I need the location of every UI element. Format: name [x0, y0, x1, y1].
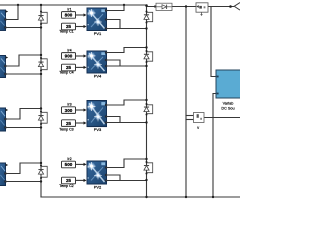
node junction before goto tag	[229, 5, 232, 8]
wire PV2 minus to right bus	[107, 65, 147, 67]
bypass diode D3R	[144, 105, 153, 114]
constant irradiance row 4 value 500	[62, 161, 76, 168]
wire irradiance row 3 to PV3	[76, 109, 84, 111]
constant temperature row 4 value 25	[62, 177, 76, 184]
node D3R cathode	[146, 114, 148, 116]
wire PV1 minus to right bus	[107, 28, 147, 30]
constant irradiance row 3 value 300	[62, 107, 76, 114]
svg-text:PV3: PV3	[94, 127, 102, 132]
svg-text:Ir2: Ir2	[67, 157, 71, 161]
PV module block left string row 4 (cropped)	[0, 163, 6, 186]
wire blocking diode to current sensor	[172, 6, 196, 8]
bypass diode D4L	[38, 166, 47, 177]
wire irradiance row 1 to PV1	[76, 14, 84, 16]
node junction left bus top on top rail	[40, 4, 42, 6]
svg-text:Temp C3: Temp C3	[59, 127, 73, 131]
svg-text:500: 500	[65, 162, 73, 167]
wire PV1 measurement port down to minus wire	[107, 20, 121, 29]
wire left block row 3 minus to left bus	[6, 127, 41, 129]
svg-text:800: 800	[65, 13, 73, 18]
svg-text:25: 25	[66, 178, 72, 183]
wire PV4 plus to right bus	[107, 159, 147, 168]
node right bus minus tap row 3	[145, 121, 147, 123]
node right bus minus tap row 4	[145, 179, 147, 181]
wire left block row 2 plus to left bus	[6, 55, 41, 66]
constant temperature row 1 value 25	[62, 23, 76, 30]
node D1L anode	[40, 11, 42, 13]
svg-text:Ir4: Ir4	[67, 48, 71, 52]
wire DC source minus to bottom rail	[213, 94, 216, 198]
current sensor U1	[196, 3, 208, 16]
node junction right bus top on top rail	[145, 4, 148, 7]
wire left block row 3 plus to left bus	[6, 109, 41, 120]
wire voltage measurement plus lead	[186, 115, 194, 117]
wire bottom rail	[41, 196, 240, 198]
wire top rail	[0, 4, 147, 6]
wire PV2 plus to right bus	[107, 48, 147, 53]
wire PV4 minus to right bus	[107, 180, 147, 182]
ports left block row 4	[4, 172, 6, 174]
node junction row1 elbow on top rail	[17, 4, 19, 6]
node right bus plus tap row 4	[145, 158, 147, 160]
node D4L cathode	[40, 177, 42, 179]
ports PV1 right edge	[105, 9, 107, 11]
svg-text:PV1: PV1	[94, 31, 102, 36]
node left bus minus tap row 2	[40, 73, 42, 75]
PV array block PV3	[87, 101, 107, 127]
node junction voltage-sense return on bottom rail	[185, 196, 187, 198]
DC source block (Variable DC Source)	[216, 70, 241, 111]
wire PV3 minus to right bus	[107, 122, 147, 124]
wire voltage measurement output to right edge	[204, 117, 240, 119]
wire PV3 plus to right bus	[107, 100, 147, 105]
voltage measurement U2	[194, 113, 205, 130]
node left bus minus tap row 1	[40, 26, 42, 28]
wire left block row 2 minus to left bus	[6, 73, 41, 75]
node left bus plus tap row 4	[40, 162, 42, 164]
bypass diode D4R	[144, 163, 153, 173]
wire irradiance row 2 to PV2	[76, 55, 84, 57]
wire current sensor output to goto tag	[208, 6, 234, 8]
svg-text:900: 900	[65, 54, 73, 59]
ports left block row 3	[4, 118, 6, 120]
blocking diode D0	[155, 3, 173, 10]
PV array block PV1	[87, 8, 107, 31]
svg-text:Temp C2: Temp C2	[59, 184, 73, 188]
node left bus minus tap row 3	[40, 126, 42, 128]
wire vertical from top rail to voltage measurement and bottom rail	[185, 7, 187, 198]
svg-text:25: 25	[66, 121, 72, 126]
node D2L cathode	[40, 70, 42, 72]
node left bus plus tap row 3	[40, 107, 42, 109]
wire current sensor branch to DC source plus	[211, 7, 216, 77]
node D1R cathode	[146, 22, 148, 24]
wire temperature row 4 to PV4	[76, 179, 84, 181]
node right bus plus tap row 2	[145, 46, 147, 48]
wire PV4 measurement port down to minus wire	[107, 175, 121, 181]
port stub left block row 1	[6, 10, 9, 13]
svg-text:PV2: PV2	[94, 184, 102, 189]
node junction voltage-sense tap on top rail	[185, 5, 187, 7]
ports left block row 1	[4, 18, 6, 20]
ports PV2 right edge	[105, 51, 107, 53]
node D1R anode	[146, 11, 148, 13]
wire voltage measurement minus lead	[186, 119, 194, 121]
ports left block row 2	[4, 65, 6, 67]
PV array block PV2	[87, 161, 107, 184]
node left bus plus tap row 2	[40, 54, 42, 56]
svg-text:Ir1: Ir1	[67, 7, 71, 11]
wire left block row 1 minus to left bus	[6, 27, 41, 29]
wire right bus	[146, 5, 148, 197]
PV module block left string row 1 (cropped)	[0, 10, 6, 30]
node right bus minus tap row 1	[145, 27, 147, 29]
wire temperature row 2 to PV2	[76, 66, 84, 68]
bypass diode D2L	[38, 59, 47, 70]
svg-text:PV4: PV4	[94, 73, 102, 78]
goto tag output	[234, 3, 240, 11]
constant irradiance row 2 value 900	[62, 53, 76, 60]
node D2L anode	[40, 57, 42, 59]
node right bus minus tap row 2	[145, 65, 147, 67]
wire top rail right segment to blocking diode	[147, 5, 156, 7]
constant temperature row 2 value 25	[62, 64, 76, 71]
wire left bus	[40, 5, 42, 197]
bypass diode D3L	[38, 112, 47, 123]
wire temperature row 3 to PV3	[76, 122, 84, 124]
node D3L cathode	[40, 123, 42, 125]
node D1L cathode	[40, 23, 42, 25]
node D2R anode	[146, 50, 148, 52]
constant temperature row 3 value 25	[62, 120, 76, 127]
wire PV2 measurement port down to minus wire	[107, 60, 121, 66]
bypass diode D2R	[144, 52, 153, 61]
wire left block row 4 minus to left bus	[6, 181, 41, 183]
svg-text:25: 25	[66, 24, 72, 29]
node D4R anode	[146, 161, 148, 163]
node D4R cathode	[146, 173, 148, 175]
node right bus plus tap row 3	[145, 99, 147, 101]
PV module block left string row 3 (cropped)	[0, 108, 6, 131]
ports PV4 right edge	[105, 166, 107, 168]
svg-text:25: 25	[66, 65, 72, 70]
PV array block PV4	[87, 51, 107, 73]
wire temperature row 1 to PV1	[76, 26, 84, 28]
svg-text:300: 300	[65, 108, 73, 113]
bypass diode D1L	[38, 12, 47, 23]
node junction PV1 plus elbow on top rail	[123, 4, 125, 6]
node D3L anode	[40, 111, 42, 113]
port stub left block row 4	[6, 164, 9, 167]
node junction right bus bottom on bottom rail	[145, 196, 147, 198]
svg-text:Temp C4: Temp C4	[59, 71, 73, 75]
wire irradiance row 4 to PV4	[76, 163, 84, 165]
svg-text:Temp C1: Temp C1	[59, 30, 73, 34]
wire left block row 1 to top rail	[6, 5, 18, 20]
wire PV3 measurement port down to minus wire	[107, 117, 121, 123]
constant irradiance row 1 value 800	[62, 12, 76, 19]
node D2R cathode	[146, 61, 148, 63]
port stub left block row 3	[6, 109, 9, 112]
node D4L anode	[40, 165, 42, 167]
PV module block left string row 2 (cropped)	[0, 56, 6, 78]
bypass diode D1R	[144, 12, 153, 21]
ports PV3 right edge	[105, 104, 107, 106]
node left bus minus tap row 4	[40, 180, 42, 182]
node D3R anode	[146, 103, 148, 105]
port stub left block row 2	[6, 56, 9, 59]
node junction DC source return on bottom rail	[212, 196, 214, 198]
wire left block row 4 plus to left bus	[6, 163, 41, 174]
svg-text:Ir3: Ir3	[67, 103, 71, 107]
wire PV1 plus up to top rail	[107, 5, 125, 11]
